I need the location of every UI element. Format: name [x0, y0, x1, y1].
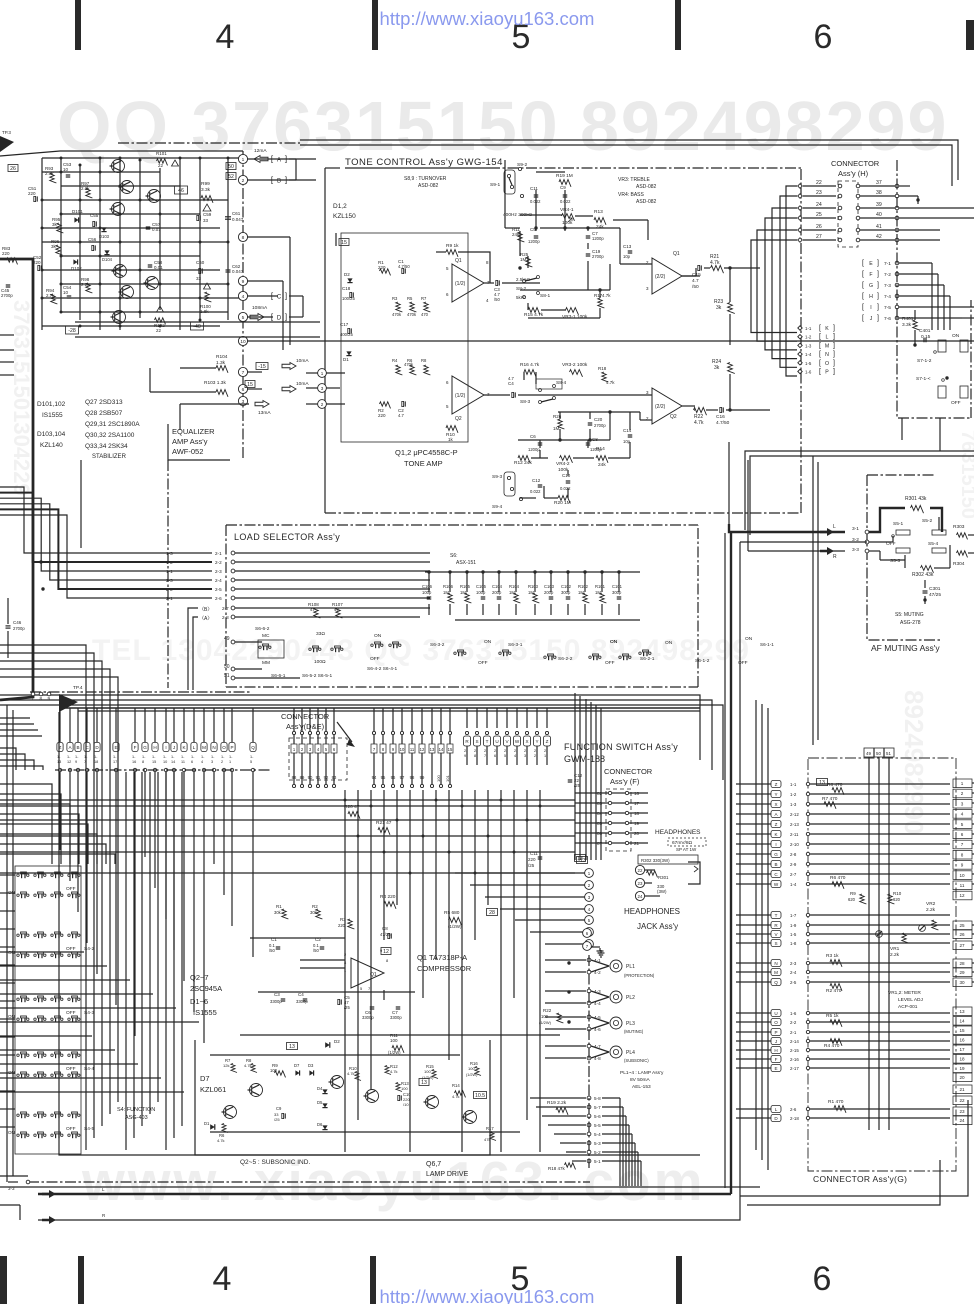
svg-text:Ass'y (F): Ass'y (F)	[610, 777, 640, 786]
transistor Q28	[113, 311, 126, 324]
label box 50	[226, 163, 236, 170]
svg-text:2SC945A: 2SC945A	[190, 984, 222, 993]
arrow 13mA	[255, 401, 269, 408]
svg-text:2-6: 2-6	[790, 1107, 797, 1112]
capacitor C9 33/25	[282, 1113, 284, 1118]
capacitor C7 3300p	[396, 1006, 401, 1008]
svg-text:Y: Y	[774, 792, 777, 797]
svg-text:-13: -13	[578, 858, 586, 864]
diode D6	[322, 1125, 327, 1129]
resistor R18 4.7k	[602, 372, 609, 382]
pin circle 1 tone	[318, 369, 327, 378]
connector tag Y row2	[534, 736, 541, 746]
label box 52	[226, 173, 236, 180]
svg-text:220: 220	[378, 413, 386, 418]
svg-text:R10: R10	[893, 891, 902, 896]
svg-text:Y: Y	[535, 739, 538, 744]
diode D101	[74, 217, 78, 222]
capacitor C103 200p	[550, 572, 552, 592]
svg-text:R103: R103	[528, 584, 539, 589]
bundle tone to function	[574, 693, 576, 860]
svg-text:R14: R14	[452, 1083, 460, 1088]
capacitor C11 0.022	[534, 194, 539, 196]
svg-text:S: S	[774, 941, 777, 946]
svg-text:30k: 30k	[274, 910, 282, 915]
svg-text:4.7/50: 4.7/50	[716, 420, 730, 426]
svg-text:U: U	[774, 1011, 777, 1016]
transistor text block frame	[80, 460, 82, 548]
capacitor C51 220/35	[34, 196, 36, 201]
pin N 1-4	[798, 352, 802, 356]
svg-text:C105: C105	[476, 584, 487, 589]
svg-text:108mA: 108mA	[252, 305, 268, 311]
resistor R301 hp	[647, 871, 658, 878]
resistor RG4 470	[830, 1039, 842, 1046]
left wire fan lower	[0, 784, 52, 864]
svg-text:22: 22	[959, 1098, 965, 1103]
svg-text:R6: R6	[407, 358, 413, 363]
svg-text:50: 50	[228, 164, 234, 170]
lamp PL2	[610, 991, 622, 1003]
svg-text:400/25: 400/25	[340, 332, 353, 337]
svg-text:D101,102: D101,102	[37, 401, 66, 408]
svg-text:S8-1: S8-1	[540, 293, 550, 299]
wire H left bundle staircase	[786, 186, 797, 376]
equalizer label frame	[168, 424, 230, 460]
svg-text:L: L	[826, 335, 829, 341]
svg-text:[: [	[819, 325, 821, 332]
svg-text:[: [	[819, 369, 821, 376]
svg-text:6: 6	[494, 754, 496, 758]
svg-text:C10: C10	[562, 473, 571, 478]
switch S8-2	[523, 280, 526, 283]
resistor R9 1k	[446, 250, 458, 257]
svg-text:S6-3-1: S6-3-1	[508, 642, 523, 648]
svg-text:1200p: 1200p	[592, 236, 604, 241]
svg-text:8: 8	[242, 235, 245, 241]
svg-text:GWM-188: GWM-188	[564, 754, 605, 764]
connector G tag K 2-11	[771, 831, 781, 838]
connector D&E pin 1	[291, 744, 297, 753]
S7 assembly dashed box	[897, 160, 971, 418]
pin 4-2	[587, 970, 591, 974]
svg-text:S8-2: S8-2	[516, 286, 526, 292]
svg-text:1-1: 1-1	[805, 326, 812, 331]
S4 bank frame	[15, 866, 81, 1154]
svg-text:(1/2): (1/2)	[455, 393, 466, 399]
svg-text:O: O	[825, 361, 829, 367]
connector G pin 4	[953, 810, 972, 819]
svg-text:C18: C18	[342, 286, 351, 291]
pin circle 3 tone	[318, 384, 327, 393]
connector G pin 8	[953, 850, 972, 859]
svg-text:[: [	[862, 293, 864, 300]
svg-text:www. xiaoyu163. com: www. xiaoyu163. com	[81, 1150, 706, 1212]
svg-text:4: 4	[242, 294, 245, 300]
trunk vertical 3-2	[739, 542, 741, 1206]
svg-text:23: 23	[959, 1109, 965, 1114]
circle jack 1	[455, 872, 585, 874]
pin circle 1	[238, 154, 247, 163]
bold L signal bottom	[38, 1193, 731, 1195]
resistor R104 1.3k	[216, 366, 228, 373]
transistor Q7	[464, 1111, 477, 1124]
svg-text:I: I	[165, 745, 166, 750]
capacitor C19 2700p	[586, 253, 591, 255]
svg-text:25: 25	[959, 923, 965, 928]
svg-text:[: [	[819, 351, 821, 358]
svg-text:(1/2W): (1/2W)	[539, 1020, 552, 1025]
svg-text:96: 96	[391, 775, 396, 780]
svg-text:4.7: 4.7	[692, 278, 699, 284]
svg-text:D3: D3	[308, 1063, 314, 1068]
svg-text:5-2: 5-2	[594, 1150, 601, 1155]
svg-text:25: 25	[816, 212, 822, 218]
svg-text:7-1: 7-1	[884, 261, 891, 267]
boxed label 15 tone	[339, 239, 349, 246]
svg-text:AWF-052: AWF-052	[172, 447, 203, 456]
svg-text:9: 9	[242, 279, 245, 285]
arrow 108mA	[250, 314, 264, 321]
resistor R93 2.7k	[50, 173, 57, 183]
svg-text:ASG-403: ASG-403	[125, 1115, 148, 1121]
svg-text:Q33,34 2SK34: Q33,34 2SK34	[85, 443, 128, 450]
AF muting dash box	[867, 475, 940, 640]
outer bottom box line 1	[8, 1181, 18, 1183]
svg-text:O: O	[774, 1020, 778, 1025]
pin circle 2	[238, 175, 247, 184]
connector G pin 17	[953, 1045, 972, 1054]
connector G tag J 2-14	[771, 1038, 781, 1045]
label box -15	[256, 363, 268, 370]
pin circle 5	[238, 312, 247, 321]
resistor R12 4.7k	[385, 1066, 391, 1075]
connector tag T row2	[484, 736, 491, 746]
svg-text:R18: R18	[598, 366, 607, 371]
svg-text:47: 47	[334, 607, 340, 612]
svg-text:4.7k: 4.7k	[244, 1063, 252, 1068]
svg-text:B: B	[774, 862, 777, 867]
svg-text:27: 27	[816, 234, 822, 240]
svg-text:9: 9	[464, 754, 466, 758]
capacitor C6 3300p	[370, 1006, 375, 1008]
svg-text:1M: 1M	[520, 257, 527, 262]
resistor R303 4.7k	[957, 533, 968, 540]
svg-text:300p: 300p	[561, 590, 571, 595]
connector G pin 28	[953, 959, 972, 968]
svg-text:N: N	[212, 745, 215, 750]
wire lower tone net	[545, 394, 652, 396]
tag pads dash line	[55, 769, 270, 771]
svg-text:5: 5	[242, 315, 245, 321]
svg-text:3300p: 3300p	[270, 999, 282, 1004]
svg-text:R7 470: R7 470	[822, 796, 838, 802]
resistor R16 4.7k	[524, 370, 536, 377]
svg-text:X: X	[774, 802, 777, 807]
capacitor C6 1200p	[538, 442, 543, 444]
svg-text:N: N	[774, 961, 777, 966]
svg-text:4: 4	[201, 760, 203, 764]
resistor R302 43k	[921, 566, 934, 573]
thin R signal bottom	[38, 1206, 740, 1220]
resistor R5 470k	[410, 302, 417, 312]
svg-text:18: 18	[959, 1057, 965, 1062]
svg-text:100Ω: 100Ω	[314, 659, 326, 665]
svg-text:23: 23	[816, 190, 822, 196]
connector G tag T 1-7	[771, 912, 781, 919]
connector tag X row2	[524, 736, 531, 746]
svg-text:4.7k: 4.7k	[694, 420, 704, 426]
transistor Q5 sub	[366, 1090, 379, 1103]
svg-text:14: 14	[171, 760, 175, 764]
capacitor C2 4.7/50	[402, 401, 404, 406]
svg-text:C101: C101	[612, 584, 623, 589]
svg-text:1: 1	[242, 157, 245, 163]
svg-text:Z: Z	[775, 782, 778, 787]
svg-text:TONE AMP: TONE AMP	[404, 459, 443, 468]
connector D&E pin 12	[419, 744, 425, 753]
potentiometer VR3-2 100k	[570, 370, 583, 377]
wire bus eq-tone 1	[75, 321, 320, 323]
svg-text:7-3: 7-3	[884, 283, 891, 289]
connector H row 23-38	[803, 195, 836, 197]
svg-text:1200p: 1200p	[528, 239, 540, 244]
resistor R20 47	[348, 812, 360, 819]
headphone jack symbol	[688, 862, 700, 884]
svg-text:C56: C56	[88, 237, 97, 242]
wire tone input 2	[306, 403, 318, 405]
svg-text:1: 1	[321, 371, 324, 376]
svg-text:OFF: OFF	[66, 886, 76, 892]
subsonic box	[195, 1040, 490, 1155]
svg-text:1M: 1M	[460, 590, 466, 595]
svg-text:〈A〉: 〈A〉	[199, 616, 212, 622]
resistor R24 3k	[728, 363, 735, 374]
boxed 12	[381, 948, 391, 955]
svg-text:2-8: 2-8	[222, 615, 229, 620]
svg-text:S6-1-2: S6-1-2	[695, 658, 710, 664]
connector H row 25-40	[803, 217, 836, 219]
svg-text:S9-1: S9-1	[490, 182, 500, 188]
svg-text:99: 99	[420, 775, 425, 780]
circle 6 pin	[583, 929, 592, 938]
connector G tag R 1-9	[771, 922, 781, 929]
svg-text:220: 220	[338, 923, 346, 928]
svg-text:C9: C9	[276, 1106, 282, 1111]
svg-text:4.7k: 4.7k	[602, 293, 611, 298]
svg-text:2-2: 2-2	[790, 1020, 797, 1025]
svg-text:47k: 47k	[484, 1137, 490, 1142]
svg-text:Q2~7: Q2~7	[190, 973, 209, 982]
resistor R26 1M	[558, 419, 565, 429]
svg-text:H: H	[153, 745, 156, 750]
connector G dash box	[808, 758, 956, 1171]
svg-text:D1,2: D1,2	[333, 203, 347, 210]
svg-text:F: F	[134, 745, 137, 750]
switch S6-5-1	[331, 648, 333, 650]
op-amp Q2 second half	[652, 388, 682, 424]
svg-text:D2: D2	[334, 1039, 340, 1044]
svg-text:1M: 1M	[553, 426, 560, 431]
svg-text:46: 46	[178, 188, 184, 194]
resistor R15 4.7k	[528, 308, 540, 315]
svg-text:27: 27	[959, 943, 965, 948]
svg-text:100p: 100p	[476, 590, 486, 595]
svg-text:3300p: 3300p	[390, 1015, 402, 1020]
label box 15	[245, 381, 255, 388]
capacitor C106 100p	[428, 572, 430, 592]
connector G pin 30	[953, 978, 972, 987]
svg-text:4.7/50: 4.7/50	[398, 264, 410, 269]
connector tag H	[152, 743, 158, 752]
svg-text:1-1: 1-1	[790, 782, 797, 787]
resistor R100 1.8k	[205, 292, 212, 302]
svg-text:C46: C46	[13, 620, 22, 625]
svg-text:IS1555: IS1555	[193, 1008, 217, 1017]
svg-text:Ass'y (H): Ass'y (H)	[838, 169, 869, 178]
svg-text:]: ]	[833, 360, 835, 367]
svg-text:R4 220: R4 220	[380, 894, 396, 900]
svg-text:1.8k: 1.8k	[200, 309, 209, 314]
svg-text:49: 49	[866, 751, 871, 756]
svg-text:J: J	[173, 745, 175, 750]
svg-text:[: [	[819, 342, 821, 349]
svg-text:[: [	[819, 334, 821, 341]
svg-text:Q27 2SD313: Q27 2SD313	[85, 399, 123, 406]
svg-text:3k: 3k	[52, 222, 58, 227]
pin 4-7	[587, 1044, 591, 1048]
compressor op-amp Q1	[351, 958, 384, 988]
svg-text:M: M	[774, 970, 778, 975]
svg-text:3: 3	[211, 760, 213, 764]
svg-text:97: 97	[400, 775, 405, 780]
svg-text:1-3: 1-3	[790, 802, 797, 807]
svg-text:94: 94	[372, 775, 377, 780]
capacitor C52 220/35	[38, 265, 40, 270]
capacitor C4 3300p	[303, 998, 308, 1000]
svg-text:10: 10	[63, 167, 69, 172]
pin M 1-3	[798, 343, 802, 347]
pin 4-4	[587, 1001, 591, 1005]
svg-text:26: 26	[816, 224, 822, 230]
svg-text:[: [	[862, 282, 864, 289]
svg-text:2.2k: 2.2k	[81, 282, 90, 287]
connector G tag P 2-1	[771, 1029, 781, 1036]
connector tag R row2	[464, 736, 471, 746]
connector G pin 26	[953, 930, 972, 939]
svg-text:1-5: 1-5	[790, 932, 797, 937]
connector G pin 13	[953, 1007, 972, 1016]
svg-text:S: S	[475, 739, 478, 744]
svg-text:OFF: OFF	[66, 1010, 76, 1016]
connector D&E pin 4	[315, 744, 321, 753]
capacitor C17 400/25	[348, 328, 350, 333]
svg-text:29: 29	[959, 970, 965, 975]
lamp feed dots	[567, 961, 570, 964]
outer box 2	[12, 710, 14, 1176]
svg-text:22: 22	[156, 328, 162, 333]
svg-text:KZL150: KZL150	[333, 213, 356, 220]
connector G pin 10	[953, 871, 972, 880]
svg-text:2: 2	[242, 178, 245, 184]
svg-text:0.022: 0.022	[530, 489, 541, 494]
svg-text:D103,104: D103,104	[37, 431, 66, 438]
svg-text:2-5: 2-5	[790, 980, 797, 985]
circle 22	[635, 865, 644, 874]
connector D&E pin 15	[447, 744, 453, 753]
capacitor C55 220/25	[93, 221, 95, 226]
capacitor C1 4.7/50	[402, 268, 404, 273]
svg-text:2-5: 2-5	[215, 587, 222, 592]
resistor R22 100	[557, 1013, 564, 1023]
svg-text:3: 3	[321, 386, 324, 391]
ground comp	[600, 950, 602, 953]
svg-text:Q1: Q1	[673, 251, 680, 257]
svg-text:1-2: 1-2	[790, 792, 797, 797]
svg-text:2-6: 2-6	[215, 596, 222, 601]
svg-text:10mA: 10mA	[296, 358, 309, 364]
svg-text:http://www.xiaoyu163.com: http://www.xiaoyu163.com	[380, 1286, 595, 1304]
svg-text:1k: 1k	[448, 437, 454, 442]
op-amp Q2 first half	[452, 376, 484, 414]
svg-text:6: 6	[813, 1260, 832, 1298]
resistor R5 680	[449, 917, 462, 925]
capacitor C8 47/25	[388, 933, 390, 938]
svg-text:22: 22	[816, 180, 822, 186]
svg-text:2-13: 2-13	[790, 822, 799, 827]
svg-text:EQUALIZER: EQUALIZER	[172, 427, 215, 436]
capacitor C62 0.047/400	[226, 269, 231, 271]
resistor RG1 470	[834, 1106, 846, 1113]
svg-text:33: 33	[203, 218, 209, 223]
diode D7 sub	[295, 1070, 299, 1075]
svg-text:C60: C60	[196, 260, 205, 265]
svg-text:220: 220	[2, 251, 10, 256]
svg-text:10.5: 10.5	[475, 1093, 485, 1099]
svg-text:0.15: 0.15	[921, 334, 931, 340]
connector tag E	[113, 743, 119, 752]
svg-text:2-16: 2-16	[790, 1057, 799, 1062]
svg-text:TP.4: TP.4	[73, 685, 83, 691]
connector G tag Z 1-1	[771, 781, 781, 788]
svg-text:R6 470: R6 470	[830, 875, 846, 881]
label 67mV box	[668, 838, 706, 846]
svg-text:3763151501304229: 3763151501304229	[9, 300, 34, 496]
svg-text:ASX-151: ASX-151	[456, 560, 476, 566]
connector D&E pin 3	[307, 744, 313, 753]
svg-text:VR2: VR2	[926, 901, 936, 907]
svg-text:1-6: 1-6	[805, 370, 812, 375]
connector G pin 20	[953, 1073, 972, 1082]
svg-text:R9: R9	[850, 891, 856, 896]
top ruler tick 4 (right edge)	[966, 20, 974, 50]
svg-text:O: O	[222, 745, 226, 750]
svg-text:470: 470	[421, 312, 429, 317]
wire tone out upper	[699, 268, 701, 276]
wire Q1 output	[484, 282, 494, 284]
wire R23	[729, 268, 731, 302]
svg-text:4.7k: 4.7k	[347, 1071, 355, 1076]
connector G tag S 1-8	[771, 940, 781, 947]
svg-text:24k: 24k	[598, 462, 606, 468]
svg-text:P: P	[825, 370, 829, 376]
resistor R10 1k	[446, 426, 458, 433]
connector G tag I 2-10	[771, 841, 781, 848]
resistor R14 24k	[596, 456, 608, 463]
connector D&E pin 6	[331, 744, 337, 753]
resistor R97 2.2k	[86, 188, 93, 198]
svg-text:S6:: S6:	[450, 553, 458, 559]
